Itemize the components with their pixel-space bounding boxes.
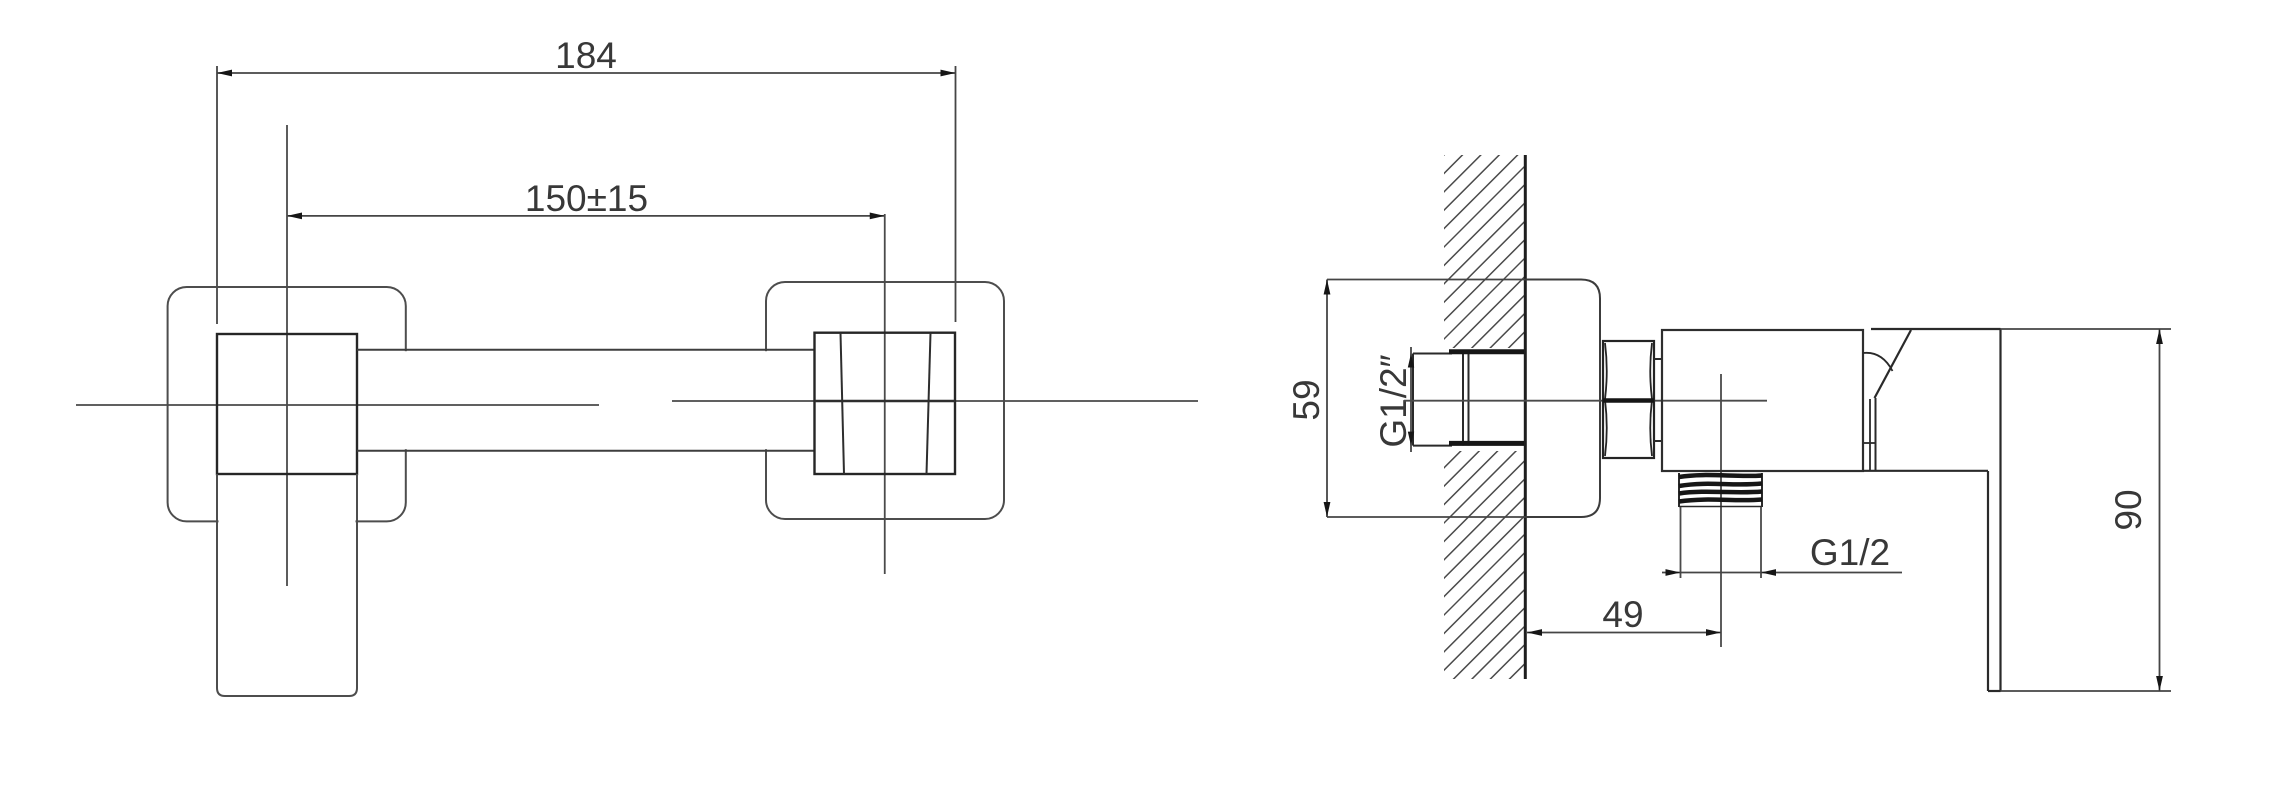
left handle (front) xyxy=(217,474,357,696)
white cover where handle passes in front of left plate xyxy=(219,476,356,695)
stub between nut and body xyxy=(1654,359,1662,441)
centerline right escutcheon (vertical) xyxy=(884,214,886,574)
left escutcheon plate xyxy=(168,287,406,521)
svg-text:49: 49 xyxy=(1602,594,1643,635)
left valve body square xyxy=(217,334,357,474)
horizontal centerline right view xyxy=(1404,400,1767,402)
extension lines for 59 xyxy=(1327,279,1525,281)
right square inner taper line right xyxy=(927,333,931,474)
outlet pipe / extension lines xyxy=(1680,507,1682,578)
dimension 90 xyxy=(2159,329,2161,691)
wall hatching xyxy=(1424,50,1549,800)
dimension 150±15 xyxy=(287,215,885,217)
right square inner taper line left xyxy=(841,333,845,474)
dimension G1/2" (vertical small) xyxy=(1410,347,1412,452)
svg-text:150±15: 150±15 xyxy=(525,178,648,219)
svg-text:59: 59 xyxy=(1286,379,1327,420)
nut waist line xyxy=(1603,398,1654,403)
escutcheon side view xyxy=(1525,280,1600,518)
wall face line xyxy=(1524,155,1527,679)
spout bar bottom edge xyxy=(357,450,815,452)
outlet vertical centerline xyxy=(1720,374,1722,647)
handle side view xyxy=(1863,329,2001,691)
spout bar top edge xyxy=(357,349,815,351)
svg-text:G1/2: G1/2 xyxy=(1810,532,1890,573)
svg-text:184: 184 xyxy=(555,35,617,76)
nipple thread bands xyxy=(1449,352,1524,444)
dimension 59 xyxy=(1326,280,1328,518)
right valve body square xyxy=(815,333,956,474)
white cover where spout bar passes in front of plates xyxy=(358,351,813,449)
dimension G1/2 (outlet) xyxy=(1662,572,1902,574)
hex nut side view xyxy=(1603,341,1654,458)
dimension 49 xyxy=(1527,632,1721,634)
wall nipple G1/2 outline xyxy=(1413,354,1469,446)
right square center horizontal (object line) xyxy=(815,400,956,402)
dimension 184 xyxy=(217,66,956,324)
horizontal centerline segment A xyxy=(76,404,599,406)
centerline left escutcheon (vertical) xyxy=(286,125,288,586)
mixer body xyxy=(1662,330,1863,471)
right escutcheon plate xyxy=(766,282,1004,519)
extension lines for 90 xyxy=(2001,328,2172,330)
svg-text:90: 90 xyxy=(2108,489,2149,530)
outlet thread xyxy=(1679,473,1762,507)
horizontal centerline segment B xyxy=(672,400,1198,402)
